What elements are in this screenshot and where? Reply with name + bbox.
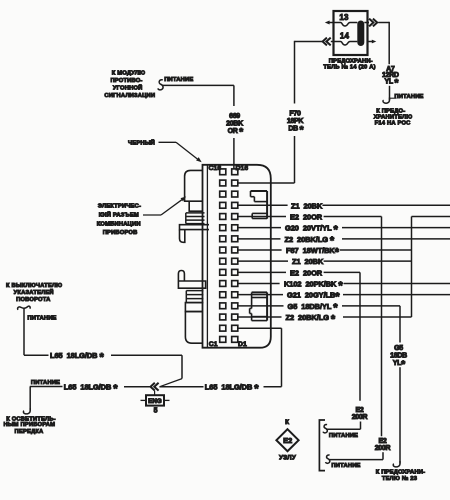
- svg-text:ЭЛЕКТРИЧЕС-: ЭЛЕКТРИЧЕС-: [98, 204, 141, 210]
- svg-text:КОМБИНАЦИИ: КОМБИНАЦИИ: [97, 222, 141, 228]
- svg-text:Z1 20BK: Z1 20BK: [291, 201, 323, 210]
- svg-text:К МОДУЛЮ: К МОДУЛЮ: [112, 71, 145, 77]
- svg-text:F70: F70: [289, 110, 301, 117]
- svg-text:669: 669: [229, 113, 240, 120]
- svg-text:СИГНАЛИЗАЦИИ: СИГНАЛИЗАЦИИ: [104, 93, 155, 99]
- svg-text:ПИТАНИЕ: ПИТАНИЕ: [27, 315, 56, 321]
- svg-text:ПРИБОРОВ: ПРИБОРОВ: [103, 230, 138, 236]
- svg-text:ПЕРЕДКА: ПЕРЕДКА: [15, 429, 45, 435]
- svg-text:E2: E2: [356, 407, 364, 414]
- svg-text:ENG: ENG: [148, 398, 162, 405]
- svg-text:200R: 200R: [352, 414, 368, 421]
- svg-text:ТЕЛЬ № 14 (20 А): ТЕЛЬ № 14 (20 А): [323, 65, 375, 71]
- svg-text:13: 13: [339, 13, 349, 22]
- svg-text:ТЕЛЮ № 23: ТЕЛЮ № 23: [382, 476, 418, 482]
- svg-text:КИЙ РАЗЪЕМ: КИЙ РАЗЪЕМ: [99, 211, 139, 219]
- svg-text:ХРАНИТЕЛЮ: ХРАНИТЕЛЮ: [374, 115, 413, 121]
- svg-text:ПИТАНИЕ: ПИТАНИЕ: [394, 94, 423, 100]
- svg-text:200R: 200R: [375, 445, 391, 452]
- svg-text:ПИТАНИЕ: ПИТАНИЕ: [331, 463, 360, 469]
- svg-text:К ВЫКЛЮЧАТЕЛЮ: К ВЫКЛЮЧАТЕЛЮ: [6, 283, 62, 289]
- svg-text:ПРЕДОХРАНИ-: ПРЕДОХРАНИ-: [329, 59, 373, 65]
- svg-text:НЫМ ПРИБОРАМ: НЫМ ПРИБОРАМ: [3, 422, 55, 428]
- svg-text:К: К: [285, 419, 289, 426]
- svg-text:ПИТАНИЕ: ПИТАНИЕ: [31, 380, 60, 386]
- svg-text:E2: E2: [283, 436, 292, 445]
- svg-text:Z1 20BK: Z1 20BK: [292, 257, 324, 266]
- svg-text:УЗЛУ: УЗЛУ: [279, 454, 297, 461]
- svg-text:E2: E2: [379, 438, 387, 445]
- svg-text:ПОВОРОТА: ПОВОРОТА: [16, 297, 51, 303]
- svg-text:К ПРЕДО-: К ПРЕДО-: [376, 108, 405, 114]
- svg-text:E2 20OR: E2 20OR: [290, 212, 323, 221]
- svg-text:К ПРЕДОХРАНИ-: К ПРЕДОХРАНИ-: [376, 469, 426, 475]
- svg-text:G5: G5: [394, 345, 403, 352]
- svg-text:D1: D1: [238, 341, 247, 348]
- svg-text:УКАЗАТЕЛЕЙ: УКАЗАТЕЛЕЙ: [14, 288, 54, 296]
- svg-text:ПИТАНИЕ: ПИТАНИЕ: [164, 77, 193, 83]
- svg-text:C1: C1: [209, 341, 218, 348]
- svg-text:ПИТАНИЕ: ПИТАНИЕ: [329, 433, 358, 439]
- svg-text:5: 5: [154, 407, 158, 414]
- svg-text:ЧЕРНЫЙ: ЧЕРНЫЙ: [128, 138, 155, 146]
- svg-text:УГОННОЙ: УГОННОЙ: [113, 83, 143, 91]
- svg-text:E2 20OR: E2 20OR: [290, 268, 323, 277]
- svg-text:ПРОТИВО-: ПРОТИВО-: [110, 78, 142, 84]
- svg-text:F14 НА РОС: F14 НА РОС: [375, 121, 412, 127]
- svg-text:14: 14: [340, 32, 350, 41]
